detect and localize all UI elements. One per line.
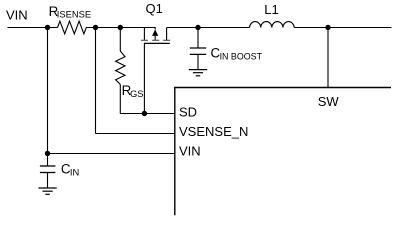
svg-text:Q1: Q1 [146, 1, 163, 16]
wire VIN pin line to IC [48, 153, 176, 155]
wire node D down to CIN BOOST [197, 28, 199, 48]
svg-text:IN: IN [70, 166, 79, 177]
label Q1 [146, 1, 163, 16]
wire Q1 drain to L1 [167, 27, 250, 29]
wire node A down to VIN pin line [47, 28, 49, 154]
wire SD pin line to IC [120, 113, 175, 115]
svg-text:VIN: VIN [179, 144, 201, 159]
capacitor CIN BOOST [190, 48, 206, 69]
svg-text:SW: SW [318, 94, 340, 109]
wire Q1 gate lead down to SD line [143, 43, 145, 113]
wire RSENSE to Q1 source [86, 28, 155, 30]
label CIN BOOST [211, 46, 263, 62]
wire L1 to SW node [294, 27, 328, 29]
node F (CIN junction) [45, 151, 50, 156]
node A (CIN / VIN branch) [45, 25, 50, 30]
svg-text:VIN: VIN [6, 7, 28, 22]
label RGS [122, 83, 144, 99]
inductor L1 [250, 22, 295, 28]
ground (below CIN BOOST) [189, 70, 207, 76]
wire VSENSE_N pin line to IC [96, 133, 176, 135]
IC U1 block outline (SD / VSENSE_N / VIN / SW pins) [175, 88, 391, 216]
resistor RGS [116, 51, 125, 84]
wire node B down to VSENSE_N pin line [95, 28, 97, 134]
node VIN label [6, 7, 28, 22]
svg-text:SD: SD [179, 105, 197, 120]
wire node C down to RGS [119, 28, 121, 52]
svg-text:GS: GS [130, 88, 144, 99]
node E (SW tap) [325, 25, 330, 30]
capacitor CIN [40, 154, 56, 188]
label RISENSE [49, 4, 92, 20]
node B (VSENSE_N sense point) [93, 25, 98, 30]
transistor Q1 (PMOS) [141, 28, 170, 44]
resistor RISENSE [58, 21, 87, 34]
ground (below CIN) [38, 188, 56, 194]
node C (RGS top) [118, 25, 123, 30]
svg-text:L1: L1 [264, 2, 278, 17]
label SW pin [318, 94, 340, 109]
label SD pin [179, 105, 197, 120]
wire VIN input to RSENSE [8, 27, 58, 29]
svg-text:VSENSE_N: VSENSE_N [179, 124, 248, 139]
label CIN [61, 162, 79, 178]
label L1 [264, 2, 278, 17]
wire SW vertical into IC [327, 28, 329, 88]
label VSENSE_N pin [179, 124, 248, 139]
node D (CIN BOOST tap) [195, 25, 200, 30]
wire SW node to right edge [328, 27, 392, 29]
label VIN pin [179, 144, 201, 159]
svg-text:IN BOOST: IN BOOST [220, 51, 263, 61]
node G (gate / SD junction) [142, 111, 147, 116]
wire RGS bottom to SD line [119, 84, 121, 113]
svg-text:ISENSE: ISENSE [57, 9, 91, 20]
